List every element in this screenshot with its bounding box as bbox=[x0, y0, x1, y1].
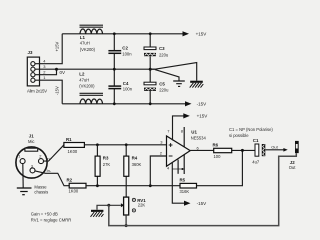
svg-text:In-: In- bbox=[47, 168, 52, 173]
wire 0V rail bbox=[57, 68, 156, 70]
svg-text:In+: In+ bbox=[46, 156, 52, 161]
svg-text:-15V: -15V bbox=[197, 201, 208, 206]
svg-text:-15V: -15V bbox=[54, 86, 59, 95]
node 0V / C3-C5 bbox=[149, 68, 152, 71]
svg-text:L2: L2 bbox=[79, 72, 85, 77]
signal ground bbox=[173, 81, 185, 86]
wire C2/C4 branch bbox=[113, 34, 115, 50]
capacitor C3 (electrolytic) bbox=[144, 47, 156, 56]
wire 0V to chassis ground bbox=[150, 63, 197, 81]
node top rail / C3 bbox=[149, 32, 152, 35]
wire ground return to J2 bbox=[109, 153, 296, 226]
node RV1 bottom / return rail bbox=[125, 224, 128, 227]
chassis ground RV1 (hatched) bbox=[91, 210, 104, 217]
svg-text:R2: R2 bbox=[67, 177, 73, 182]
svg-text:220u: 220u bbox=[159, 88, 169, 93]
+15V arrow top bbox=[183, 31, 190, 36]
svg-text:1K00: 1K00 bbox=[69, 188, 79, 193]
capacitor C4 bbox=[108, 86, 121, 89]
svg-text:C1: C1 bbox=[253, 138, 259, 143]
svg-text:+15V: +15V bbox=[197, 114, 209, 119]
wire top +15V rail bbox=[62, 33, 183, 35]
node top rail / C2 bbox=[113, 32, 116, 35]
-15V arrow opamp bbox=[184, 201, 191, 206]
connector J2 bbox=[295, 141, 299, 153]
node 0V junction bbox=[55, 68, 58, 71]
resistor R3 bbox=[95, 145, 100, 186]
-15V arrow bottom bbox=[185, 101, 192, 106]
svg-text:chassis: chassis bbox=[34, 190, 48, 195]
svg-text:R3: R3 bbox=[103, 156, 109, 161]
svg-text:+15V: +15V bbox=[54, 41, 59, 51]
svg-text:47uH: 47uH bbox=[79, 78, 89, 83]
svg-text:+15V: +15V bbox=[196, 32, 208, 37]
svg-text:1K00: 1K00 bbox=[68, 149, 78, 154]
svg-text:C1 = NP (Non Polarise): C1 = NP (Non Polarise) bbox=[229, 127, 273, 132]
wire In+ bbox=[44, 145, 65, 161]
+15V arrow opamp bbox=[183, 113, 190, 118]
resistor R4 bbox=[124, 145, 129, 197]
svg-text:C5: C5 bbox=[159, 82, 165, 87]
svg-text:-15V: -15V bbox=[197, 102, 208, 107]
svg-text:Out: Out bbox=[289, 165, 297, 170]
wire bottom -15V rail bbox=[62, 103, 185, 105]
wire inverting rail bbox=[86, 185, 180, 187]
svg-text:R5: R5 bbox=[180, 177, 186, 182]
resistor R2 bbox=[69, 183, 86, 188]
node wiper junction bbox=[107, 204, 110, 207]
svg-text:Alim 2x15V: Alim 2x15V bbox=[27, 89, 47, 94]
capacitor C1 (electrolytic) bbox=[255, 144, 265, 156]
inductor L2 bbox=[80, 93, 104, 104]
resistor R1 bbox=[64, 143, 85, 148]
svg-text:(VK200): (VK200) bbox=[80, 47, 96, 52]
wire 0V to signal ground bbox=[155, 70, 179, 81]
wire pin4 to +15V rail bbox=[35, 34, 62, 64]
wire wiper to ground bbox=[97, 205, 121, 210]
capacitor C5 (electrolytic) bbox=[144, 82, 156, 91]
resistor R6 bbox=[214, 148, 232, 152]
svg-text:C2: C2 bbox=[122, 46, 128, 51]
svg-text:47uH: 47uH bbox=[80, 41, 90, 46]
potentiometer RV1 bbox=[121, 197, 136, 215]
svg-text:(VK200): (VK200) bbox=[79, 84, 95, 89]
wire pin 2 riser bbox=[150, 156, 166, 186]
node 0V / C2-C4 bbox=[113, 68, 116, 71]
node R3 top bbox=[96, 143, 99, 146]
compensation pins 5/8 bbox=[172, 160, 184, 174]
svg-text:Gain = +50 dB: Gain = +50 dB bbox=[31, 211, 58, 216]
wire pin2 to 0V bbox=[35, 69, 56, 75]
svg-text:C3: C3 bbox=[159, 46, 165, 51]
svg-text:100n: 100n bbox=[122, 51, 132, 56]
ground masse chassis bbox=[17, 188, 32, 195]
svg-text:360K: 360K bbox=[132, 162, 142, 167]
svg-text:22K: 22K bbox=[138, 202, 146, 207]
svg-text:Masse: Masse bbox=[34, 184, 47, 189]
svg-text:100: 100 bbox=[214, 154, 222, 159]
wire pin1 to masse bbox=[22, 164, 24, 188]
inductor L1 bbox=[80, 25, 104, 34]
svg-text:NE5534: NE5534 bbox=[191, 135, 207, 140]
wire pin 7 to +15V bbox=[173, 116, 185, 140]
wire RV1 bottom to return bbox=[125, 215, 127, 226]
svg-text:27K: 27K bbox=[103, 162, 111, 167]
svg-text:R4: R4 bbox=[132, 156, 138, 161]
wire noninverting rail bbox=[84, 144, 166, 146]
node R4 top bbox=[125, 143, 128, 146]
wire pin 4 to -15V bbox=[172, 163, 184, 203]
svg-text:316K: 316K bbox=[180, 189, 190, 194]
chassis ground (hatched) bbox=[190, 81, 204, 88]
svg-text:RV1 = reglage CMRR: RV1 = reglage CMRR bbox=[31, 217, 72, 222]
svg-text:si possible: si possible bbox=[229, 133, 249, 138]
capacitor C2 bbox=[108, 51, 121, 54]
node bottom rail / C5 bbox=[149, 102, 152, 105]
svg-text:J3: J3 bbox=[28, 50, 33, 55]
wire R6 to C1 bbox=[232, 149, 255, 151]
svg-text:100n: 100n bbox=[123, 87, 133, 92]
connector J1 bbox=[16, 147, 47, 178]
svg-text:220u: 220u bbox=[159, 53, 169, 58]
op-amp U1 bbox=[167, 136, 191, 166]
wire In- bbox=[35, 171, 69, 186]
node bottom rail / C4 bbox=[113, 102, 116, 105]
svg-text:R6: R6 bbox=[213, 143, 219, 148]
svg-text:Mic: Mic bbox=[28, 139, 34, 144]
svg-text:U1: U1 bbox=[191, 130, 197, 135]
svg-text:Out: Out bbox=[271, 144, 278, 149]
wire pin 8 comp bbox=[183, 127, 185, 174]
wire pin3 to 0V bbox=[35, 68, 56, 70]
svg-text:R1: R1 bbox=[66, 137, 72, 142]
wire out arrow bbox=[265, 149, 283, 151]
svg-text:C4: C4 bbox=[123, 81, 129, 86]
resistor R5 bbox=[180, 183, 197, 188]
svg-text:4u7: 4u7 bbox=[252, 159, 260, 164]
node pin2 riser bbox=[149, 184, 152, 187]
wire output pin 6 bbox=[190, 149, 214, 151]
svg-text:0V: 0V bbox=[60, 70, 67, 75]
node feedback junction bbox=[241, 149, 244, 152]
connector J3 bbox=[27, 57, 39, 86]
wire C3/C5 branch bbox=[149, 34, 151, 47]
svg-text:J1: J1 bbox=[29, 134, 34, 139]
wire pin1 to -15V rail bbox=[35, 80, 62, 104]
node R3 bottom bbox=[96, 184, 99, 187]
svg-text:L1: L1 bbox=[80, 35, 86, 40]
